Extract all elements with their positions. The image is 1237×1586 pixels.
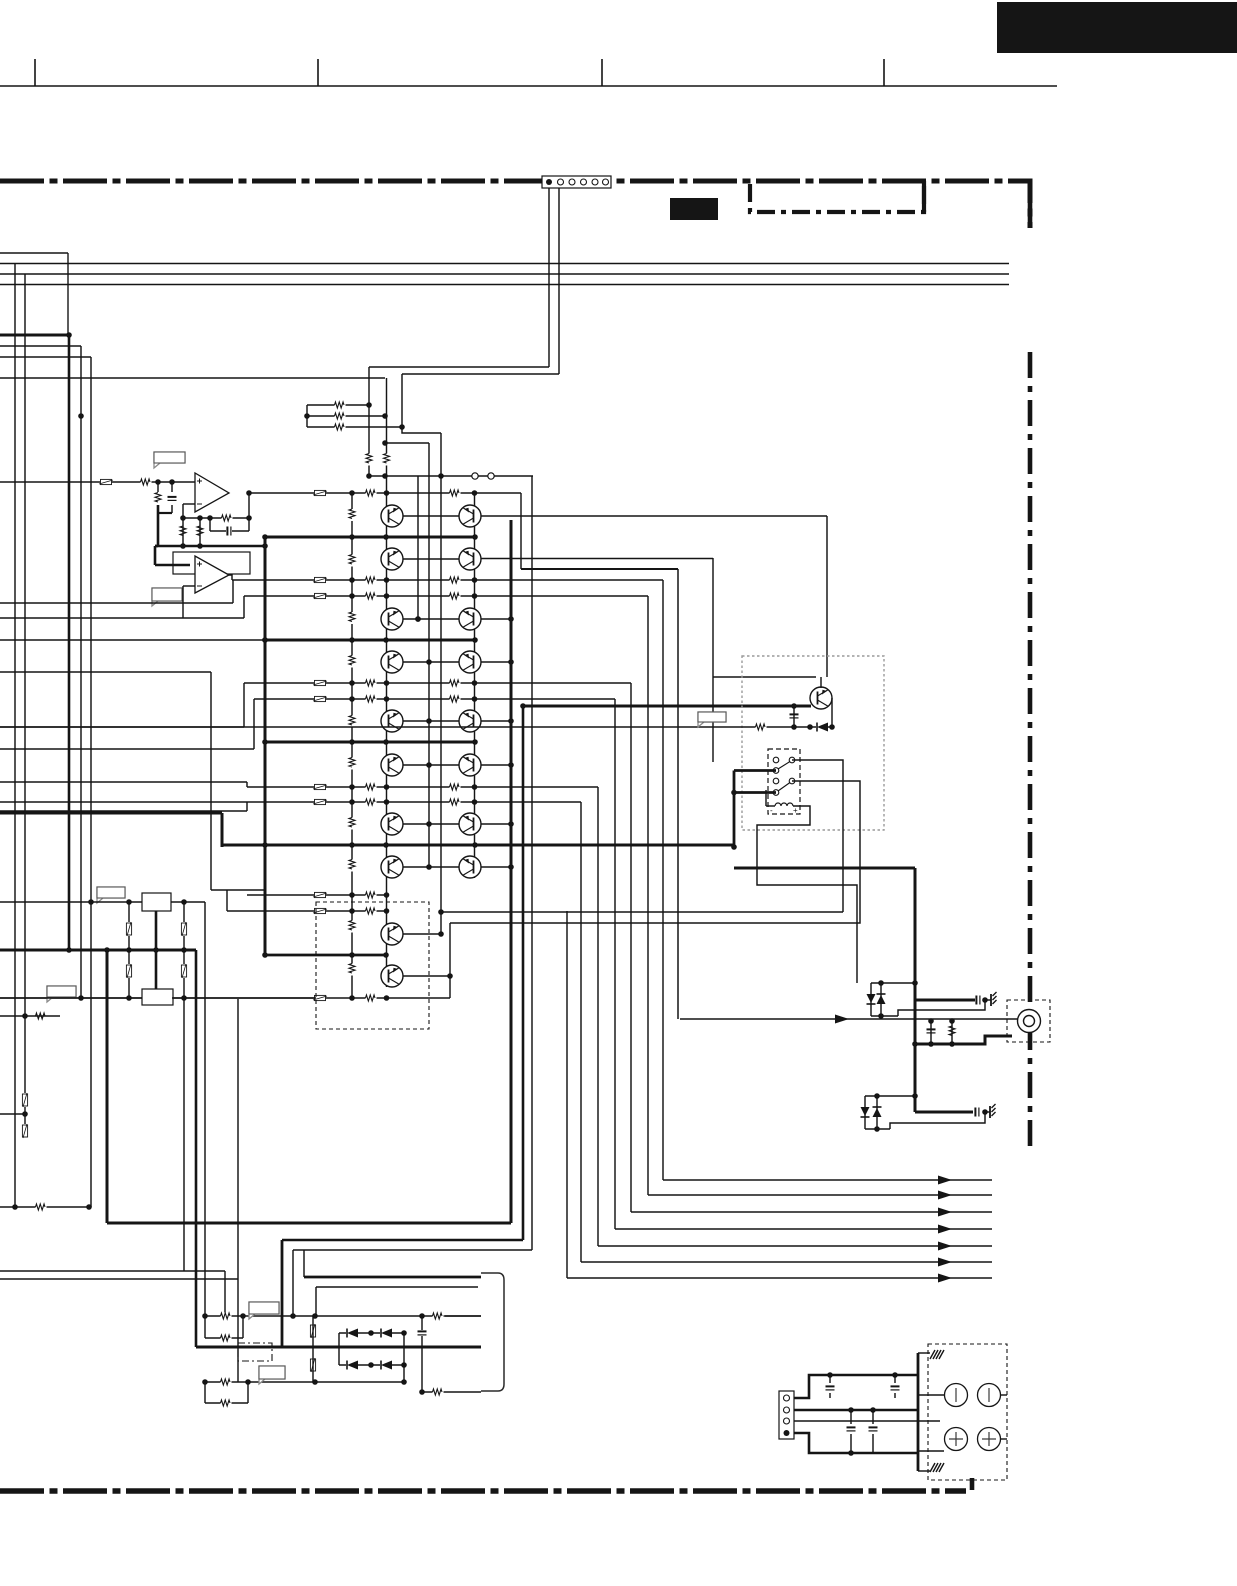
svg-text:+: + <box>793 806 798 815</box>
svg-text:-: - <box>770 806 773 815</box>
